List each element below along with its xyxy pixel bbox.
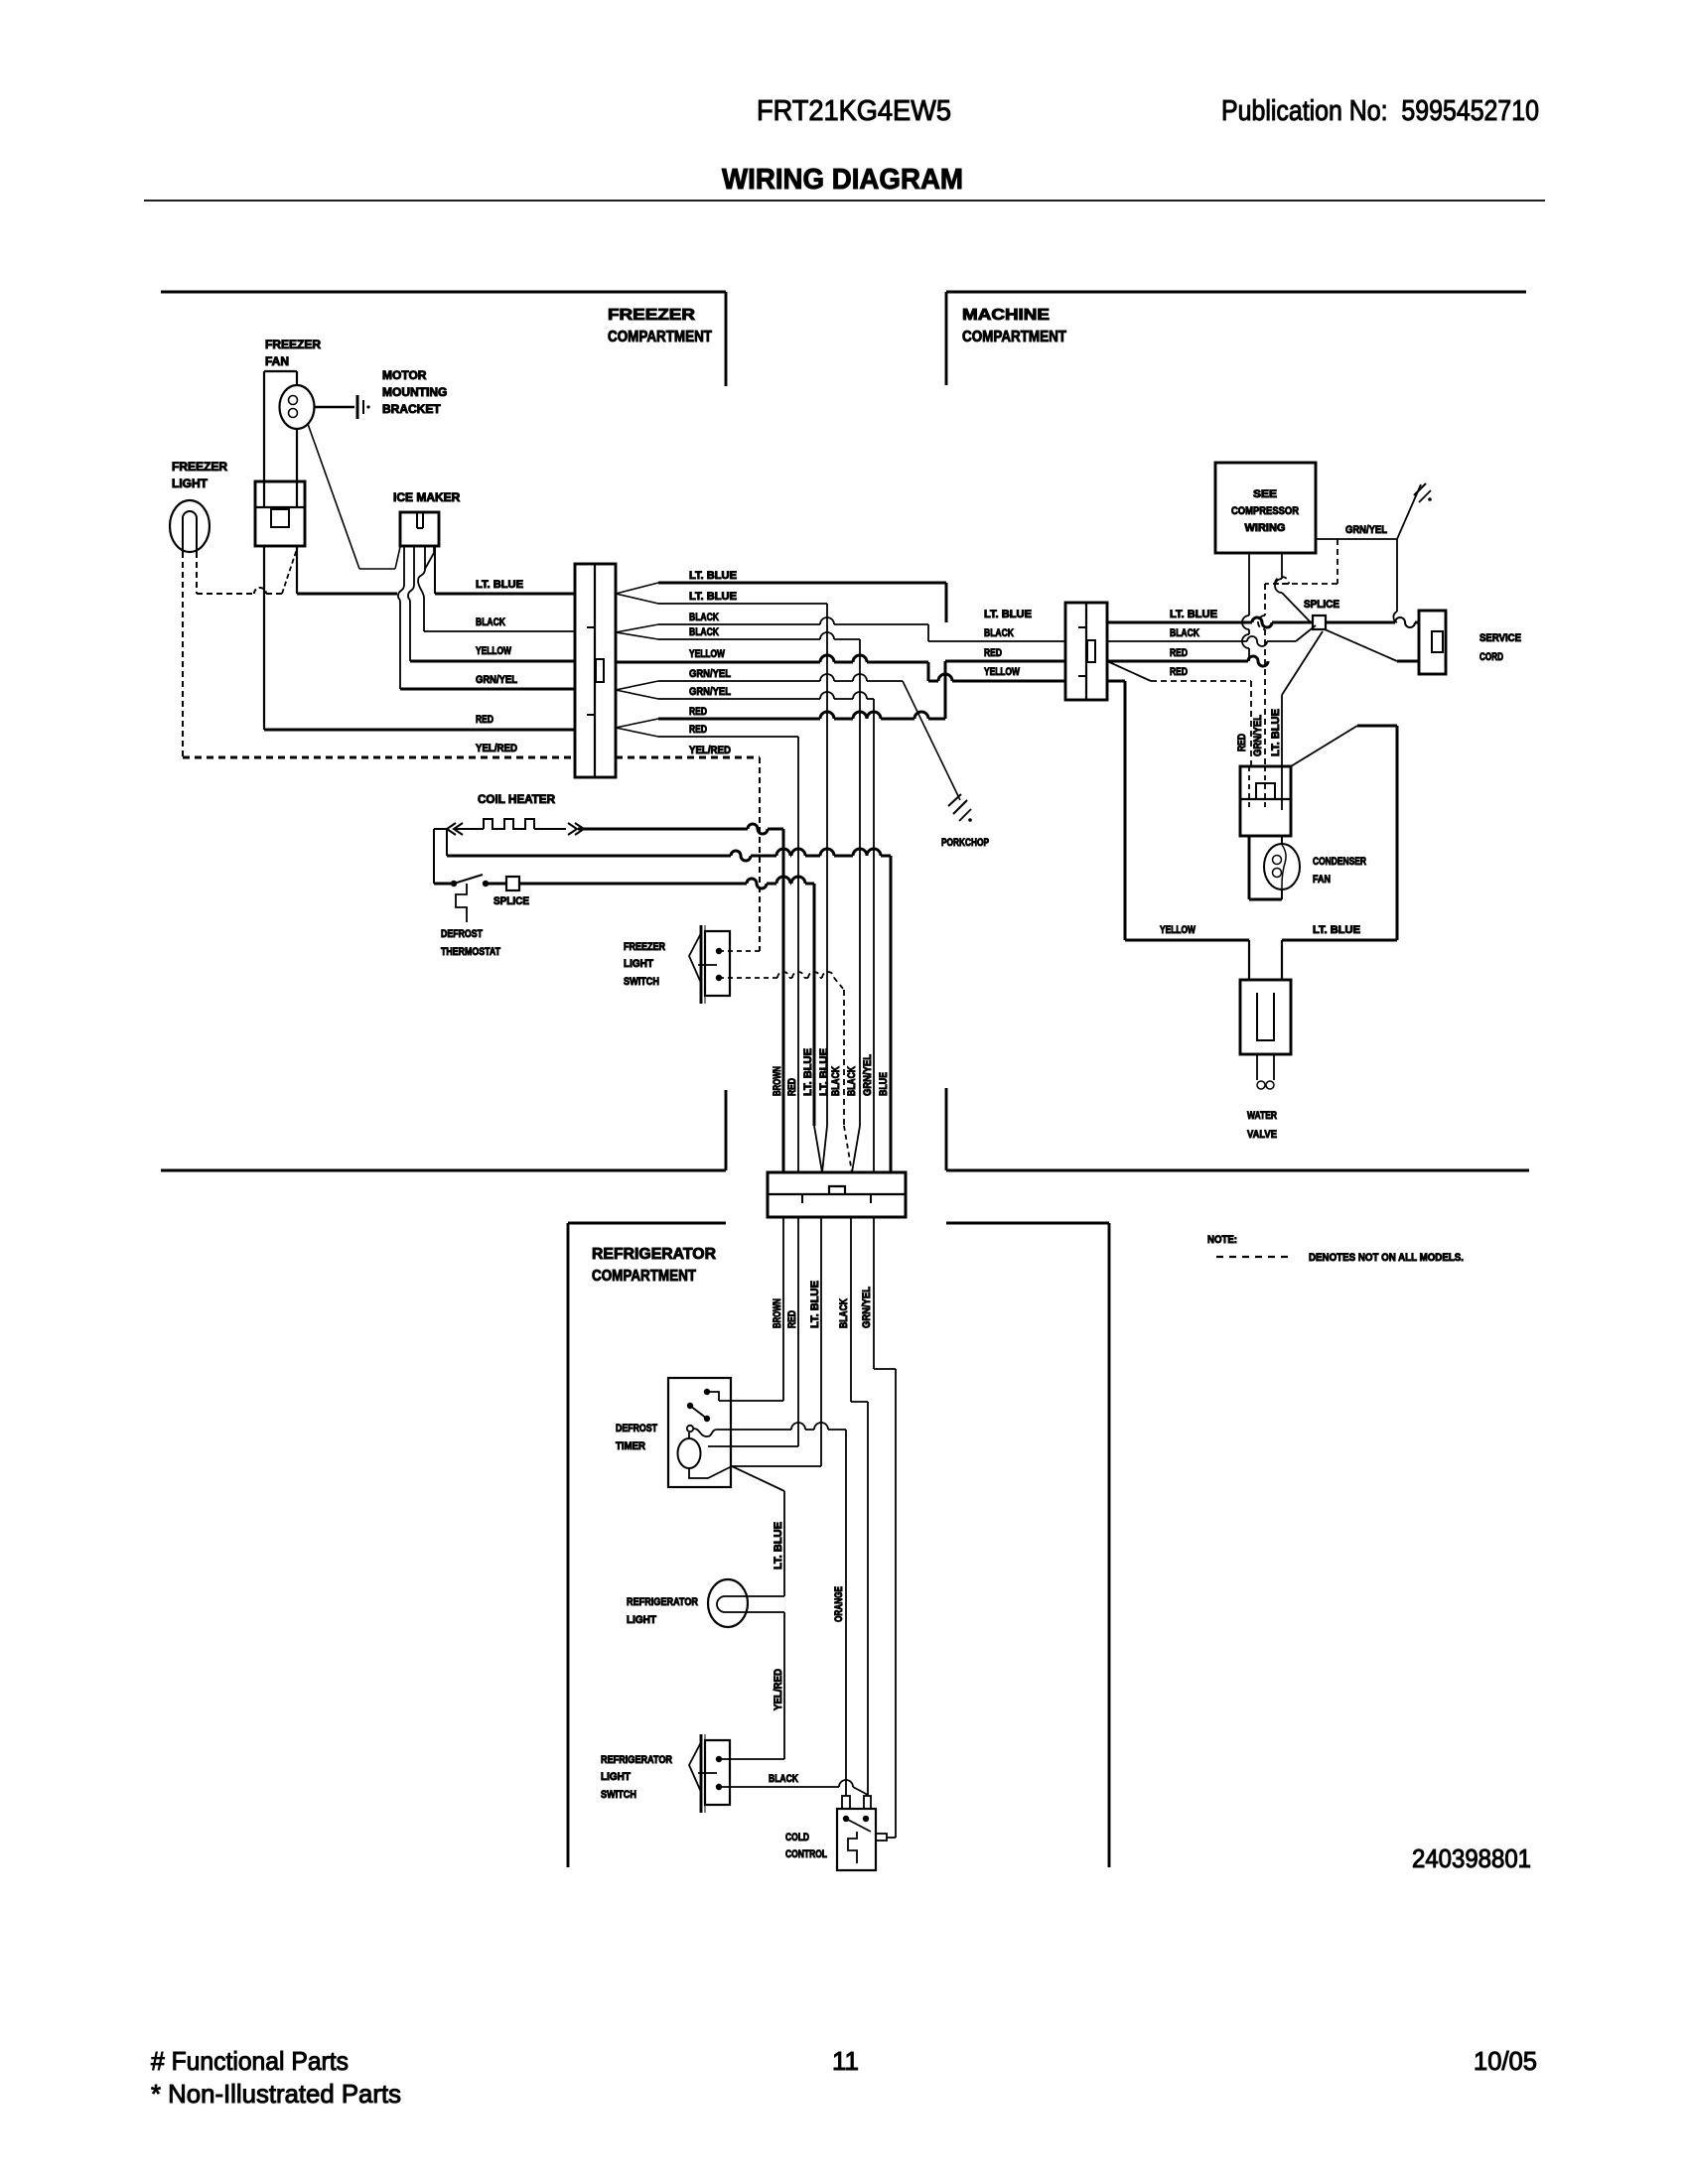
svg-text:COMPARTMENT: COMPARTMENT <box>592 1268 696 1285</box>
svg-text:RED: RED <box>786 1078 798 1096</box>
svg-text:LIGHT: LIGHT <box>172 477 209 490</box>
svg-text:MACHINE: MACHINE <box>962 307 1050 324</box>
svg-text:GRN/YEL: GRN/YEL <box>689 686 731 698</box>
svg-text:ICE MAKER: ICE MAKER <box>393 490 461 504</box>
svg-text:BROWN: BROWN <box>772 1298 783 1328</box>
svg-text:NOTE:: NOTE: <box>1207 1234 1237 1246</box>
svg-text:FAN: FAN <box>265 354 289 368</box>
svg-text:LT. BLUE: LT. BLUE <box>1313 924 1360 936</box>
svg-text:COLD: COLD <box>785 1832 809 1843</box>
svg-text:240398801: 240398801 <box>1412 1843 1531 1873</box>
svg-text:BLACK: BLACK <box>838 1298 850 1328</box>
svg-text:YELLOW: YELLOW <box>689 648 725 660</box>
svg-text:LIGHT: LIGHT <box>627 1614 656 1626</box>
svg-text:10/05: 10/05 <box>1474 2046 1537 2076</box>
svg-text:SERVICE: SERVICE <box>1479 632 1521 644</box>
svg-text:WIRING: WIRING <box>1245 522 1286 534</box>
svg-text:YEL/RED: YEL/RED <box>689 745 731 756</box>
svg-text:BROWN: BROWN <box>772 1066 783 1096</box>
svg-text:BLACK: BLACK <box>984 627 1014 639</box>
svg-text:RED: RED <box>1170 647 1188 659</box>
svg-text:FREEZER: FREEZER <box>608 307 696 324</box>
svg-text:CONTROL: CONTROL <box>785 1848 827 1860</box>
svg-text:DEFROST: DEFROST <box>441 928 483 940</box>
svg-text:SPLICE: SPLICE <box>1304 599 1339 611</box>
svg-text:GRN/YEL: GRN/YEL <box>689 668 731 680</box>
svg-text:LT. BLUE: LT. BLUE <box>773 1522 784 1570</box>
svg-text:BLACK: BLACK <box>769 1773 798 1785</box>
svg-text:BRACKET: BRACKET <box>382 402 441 416</box>
svg-text:YEL/RED: YEL/RED <box>773 1669 784 1710</box>
svg-text:* Non-Illustrated Parts: * Non-Illustrated Parts <box>151 2079 401 2109</box>
svg-text:GRN/YEL: GRN/YEL <box>1345 524 1387 536</box>
svg-text:FRT21KG4EW5: FRT21KG4EW5 <box>757 95 951 127</box>
svg-text:BLACK: BLACK <box>1170 627 1199 639</box>
svg-text:WIRING DIAGRAM: WIRING DIAGRAM <box>722 164 963 196</box>
svg-text:ORANGE: ORANGE <box>833 1586 845 1622</box>
svg-text:GRN/YEL: GRN/YEL <box>862 1054 874 1096</box>
svg-text:BLACK: BLACK <box>689 612 719 623</box>
svg-text:Publication No: 5995452710: Publication No: 5995452710 <box>1221 95 1539 127</box>
svg-text:YELLOW: YELLOW <box>476 645 511 657</box>
svg-text:BLACK: BLACK <box>689 626 719 638</box>
svg-text:GRN/YEL: GRN/YEL <box>1252 715 1264 756</box>
svg-text:DENOTES NOT ON ALL MODELS.: DENOTES NOT ON ALL MODELS. <box>1309 1252 1464 1264</box>
svg-text:LT. BLUE: LT. BLUE <box>689 570 737 582</box>
svg-text:LT. BLUE: LT. BLUE <box>802 1048 814 1096</box>
svg-text:YEL/RED: YEL/RED <box>476 743 517 754</box>
svg-text:RED: RED <box>476 714 493 726</box>
svg-text:CORD: CORD <box>1479 651 1503 663</box>
svg-text:FREEZER: FREEZER <box>265 338 321 351</box>
svg-text:GRN/YEL: GRN/YEL <box>861 1287 873 1328</box>
svg-text:LT. BLUE: LT. BLUE <box>1270 709 1282 756</box>
svg-text:LIGHT: LIGHT <box>601 1771 631 1783</box>
svg-text:RED: RED <box>1236 734 1248 751</box>
svg-text:LT. BLUE: LT. BLUE <box>809 1281 821 1328</box>
svg-text:RED: RED <box>1170 666 1188 678</box>
svg-text:COIL HEATER: COIL HEATER <box>478 792 555 806</box>
svg-text:LT. BLUE: LT. BLUE <box>689 591 737 603</box>
svg-text:COMPARTMENT: COMPARTMENT <box>962 329 1066 345</box>
svg-text:11: 11 <box>832 2046 859 2076</box>
svg-text:VALVE: VALVE <box>1247 1129 1277 1141</box>
svg-text:REFRIGERATOR: REFRIGERATOR <box>592 1246 716 1263</box>
svg-text:FREEZER: FREEZER <box>172 460 227 474</box>
svg-text:SPLICE: SPLICE <box>493 895 529 907</box>
svg-text:LT. BLUE: LT. BLUE <box>476 579 523 591</box>
svg-text:REFRIGERATOR: REFRIGERATOR <box>627 1596 698 1608</box>
svg-text:RED: RED <box>786 1310 798 1328</box>
svg-text:LT. BLUE: LT. BLUE <box>818 1048 830 1096</box>
svg-text:LT. BLUE: LT. BLUE <box>984 609 1032 620</box>
svg-text:THERMOSTAT: THERMOSTAT <box>441 946 500 958</box>
svg-text:RED: RED <box>689 724 707 736</box>
svg-text:# Functional Parts: # Functional Parts <box>151 2046 349 2076</box>
svg-text:REFRIGERATOR: REFRIGERATOR <box>601 1754 672 1766</box>
svg-text:YELLOW: YELLOW <box>1160 924 1196 936</box>
svg-text:MOUNTING: MOUNTING <box>382 385 447 399</box>
svg-text:PORKCHOP: PORKCHOP <box>941 837 989 849</box>
svg-text:LIGHT: LIGHT <box>624 958 653 970</box>
svg-text:SWITCH: SWITCH <box>624 976 659 988</box>
svg-text:YELLOW: YELLOW <box>984 666 1020 678</box>
svg-text:COMPARTMENT: COMPARTMENT <box>608 329 712 345</box>
svg-text:MOTOR: MOTOR <box>382 368 427 382</box>
svg-text:BLUE: BLUE <box>878 1072 890 1096</box>
svg-text:FAN: FAN <box>1313 874 1331 886</box>
svg-text:CONDENSER: CONDENSER <box>1313 856 1366 868</box>
svg-text:TIMER: TIMER <box>616 1440 645 1452</box>
svg-text:SWITCH: SWITCH <box>601 1789 636 1801</box>
svg-text:SEE: SEE <box>1253 488 1277 500</box>
svg-text:WATER: WATER <box>1247 1110 1277 1122</box>
svg-text:GRN/YEL: GRN/YEL <box>476 674 517 686</box>
svg-text:BLACK: BLACK <box>846 1066 858 1096</box>
svg-text:FREEZER: FREEZER <box>624 941 665 953</box>
svg-text:LT. BLUE: LT. BLUE <box>1170 609 1217 620</box>
svg-text:RED: RED <box>984 647 1002 659</box>
svg-text:BLACK: BLACK <box>476 616 505 628</box>
svg-text:RED: RED <box>689 706 707 718</box>
svg-text:COMPRESSOR: COMPRESSOR <box>1231 505 1299 517</box>
svg-text:BLACK: BLACK <box>830 1066 842 1096</box>
svg-text:DEFROST: DEFROST <box>616 1423 657 1434</box>
